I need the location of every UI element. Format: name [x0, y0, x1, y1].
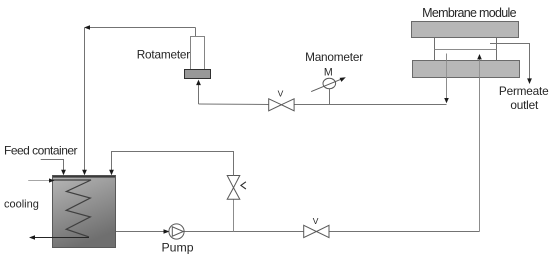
manometer needle [311, 77, 346, 91]
valve V (top) [269, 99, 294, 111]
valve V (bottom) [304, 225, 329, 237]
cooling outlet line [29, 235, 89, 240]
svg-text:Rotameter: Rotameter [137, 48, 191, 62]
membrane module bottom plate [413, 61, 520, 78]
wire: manometer stem [329, 89, 331, 105]
wire: retentate drop through bottom plate (faint) [446, 61, 448, 78]
label < (check valve) [241, 182, 246, 189]
check valve [227, 176, 240, 200]
wire: bypass return to container [109, 152, 233, 176]
wire: retentate pipe (rotameter to valve) [199, 103, 269, 106]
membrane module top plate [412, 22, 519, 38]
wire: rotameter inlet riser [196, 80, 201, 104]
wire: feed pipe from container through pump and valve [116, 231, 480, 233]
rotameter tube [191, 37, 205, 70]
svg-text:Membrane module: Membrane module [422, 6, 516, 20]
feed container [53, 176, 116, 248]
wire: module feed riser (pump line up to membrane cell) [479, 57, 481, 232]
wire: retentate drop from membrane cell [446, 54, 448, 101]
svg-text:Permeate: Permeate [499, 84, 549, 98]
svg-text:V: V [278, 89, 284, 99]
svg-text:Manometer: Manometer [305, 50, 363, 64]
wire: rotameter top connector [195, 28, 197, 37]
svg-text:outlet: outlet [510, 98, 539, 112]
svg-text:V: V [313, 216, 319, 226]
wire: feed riser through bottom plate (faint) [479, 61, 481, 78]
cooling inlet line [28, 178, 54, 182]
wire: retentate pipe (valve to module drop) [294, 104, 446, 106]
wire: permeate outlet line [490, 44, 532, 85]
wire: bypass riser [233, 199, 235, 231]
cooling coil [53, 180, 91, 237]
rotameter base [185, 70, 211, 79]
arrowhead: flow into pump [164, 229, 170, 234]
svg-text:cooling: cooling [4, 198, 39, 210]
membrane cell right wall [496, 38, 498, 61]
membrane cell left wall [434, 38, 436, 61]
leader: feed container label [41, 160, 66, 176]
wire: top return line (rotameter outlet to feed container) [82, 25, 195, 175]
pump [169, 224, 184, 239]
svg-text:Pump: Pump [161, 240, 193, 254]
membrane sheet [435, 49, 497, 51]
arrowhead: feed into membrane cell [477, 54, 482, 59]
svg-text:M: M [324, 66, 333, 78]
manometer M gauge [323, 78, 336, 88]
arrowhead: retentate onto pipe [444, 98, 449, 103]
svg-text:Feed container: Feed container [4, 143, 78, 157]
